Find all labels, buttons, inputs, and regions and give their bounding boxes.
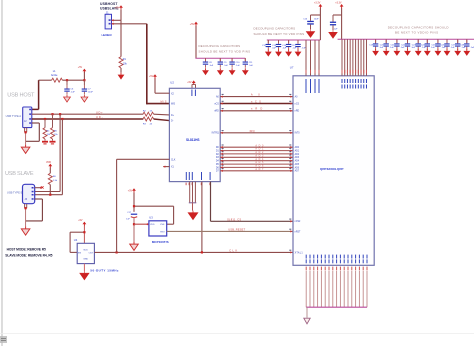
- power +5V (U2): [187, 80, 195, 85]
- sheet border bottom: [0, 333, 474, 335]
- wire J1 pin1 to R1: [120, 20, 122, 56]
- power +5V (decoupling A): [190, 22, 198, 27]
- ground (C22): [404, 49, 411, 56]
- node D+ tie: [59, 113, 61, 115]
- wire U3 RST output: [167, 230, 293, 232]
- note decoupling (U2): [199, 44, 251, 54]
- svg-text:OUT: OUT: [89, 252, 94, 254]
- inductor L1 ferrite: [51, 70, 62, 82]
- wire VBUS to J2 pin1: [32, 108, 39, 110]
- svg-text:.1uF: .1uF: [441, 47, 446, 49]
- svg-text:SHOULD BE NEXT TO VDD PINS: SHOULD BE NEXT TO VDD PINS: [199, 50, 251, 54]
- svg-text:QFP32/8XLQFP: QFP32/8XLQFP: [320, 167, 344, 171]
- U2 pin numbers right: [222, 94, 224, 169]
- IC U3 MCP100 body: [149, 221, 167, 236]
- wire data bus AD1: [220, 149, 293, 151]
- ground (C28): [463, 49, 470, 56]
- wire decoupling rail B: [267, 39, 321, 41]
- IC U2 SL811HS body: [169, 88, 220, 181]
- svg-text:INT0: INT0: [295, 133, 301, 135]
- note USBHOST/USBSLAVE: [100, 2, 119, 10]
- wire VDD to R6: [49, 168, 51, 173]
- resistor R1: [119, 57, 127, 68]
- svg-text:AD7: AD7: [295, 170, 300, 173]
- svg-text:+5V: +5V: [149, 75, 154, 78]
- ground (C14): [285, 50, 292, 57]
- capacitor C19: [369, 39, 384, 49]
- svg-text:U4: U4: [74, 238, 78, 242]
- connector J2 USB TYPE A: [23, 107, 32, 128]
- svg-text:.1uF: .1uF: [379, 47, 384, 49]
- wire host-slave tie 2: [35, 119, 63, 195]
- U2 right pin names: [212, 96, 220, 173]
- svg-text:10uF: 10uF: [88, 92, 94, 94]
- ground (C27): [454, 49, 461, 56]
- capacitor C7: [82, 80, 94, 95]
- svg-text:RST: RST: [160, 231, 165, 233]
- note decoupling (U7 core): [254, 27, 305, 37]
- wire U3 VDD pin: [134, 223, 149, 225]
- node J3 gnd junction: [25, 207, 27, 209]
- capacitor C26: [441, 39, 456, 49]
- resistor R6 1.5k: [48, 173, 58, 184]
- wire C17 to gnd: [133, 218, 135, 242]
- ground bar (R4): [42, 141, 48, 145]
- svg-text:nCS: nCS: [295, 103, 300, 105]
- U7 VDDIO pin names rotated: [342, 79, 367, 89]
- svg-text:MCP100T/S: MCP100T/S: [152, 240, 169, 244]
- capacitor C11: [243, 58, 254, 68]
- svg-text:CLK: CLK: [229, 249, 237, 253]
- svg-text:USB_RESET: USB_RESET: [228, 227, 245, 231]
- U7 pin numbers left: [289, 94, 291, 251]
- oscillator U4 body: [77, 243, 94, 263]
- svg-text:nCS: nCS: [214, 104, 219, 106]
- wire J1 pin2: [112, 23, 147, 25]
- wire mode net to U2: [147, 103, 170, 105]
- svg-text:.1uF: .1uF: [292, 48, 297, 50]
- ground (C19): [372, 49, 379, 56]
- wire clock branch to U2: [117, 159, 170, 252]
- ground (C13): [275, 50, 282, 57]
- power +3.3V (VDDIO): [335, 2, 343, 9]
- svg-text:USB TYPE A: USB TYPE A: [6, 114, 22, 118]
- wire +3.3V down to rail C: [341, 8, 343, 39]
- ground (C15): [295, 50, 302, 57]
- svg-text:USB HOST: USB HOST: [7, 93, 35, 99]
- svg-text:D-: D-: [171, 121, 174, 123]
- svg-text:+5V: +5V: [78, 219, 83, 222]
- svg-text:DECOUPLING CAPACITORS: DECOUPLING CAPACITORS: [199, 44, 241, 48]
- wire A0 net: [220, 95, 293, 97]
- svg-text:UD-: UD-: [96, 115, 103, 119]
- wire VDD core drops: [306, 40, 319, 76]
- svg-text:.1uF: .1uF: [461, 47, 466, 49]
- wire data bus AD0: [220, 146, 293, 148]
- node R6/D+ junction: [49, 194, 51, 196]
- wire branch to C16: [311, 14, 321, 16]
- capacitor C21: [391, 39, 406, 49]
- U2 GND pins to ground: [189, 182, 197, 211]
- svg-text:AD2: AD2: [295, 153, 300, 156]
- svg-text:.1uF: .1uF: [390, 47, 395, 49]
- capacitor C6: [64, 80, 75, 95]
- svg-text:.1uF: .1uF: [422, 47, 427, 49]
- wire data bus AD4: [220, 160, 293, 162]
- capacitor C25: [432, 39, 447, 49]
- capacitor C23: [412, 39, 427, 49]
- svg-text:SLAVE MODE: REMOVE R4, R5: SLAVE MODE: REMOVE R4, R5: [5, 254, 52, 258]
- svg-text:.1uF: .1uF: [224, 65, 229, 67]
- wire J1 pin1: [112, 19, 122, 21]
- power +5V (U3): [128, 188, 136, 193]
- svg-text:GND: GND: [83, 258, 88, 260]
- wire data bus AD3: [220, 156, 293, 158]
- svg-text:M/S: M/S: [171, 104, 176, 106]
- resistor R3: [143, 117, 154, 125]
- capacitor C24: [421, 39, 436, 49]
- wire data bus AD5: [220, 163, 293, 165]
- wire R3 to U2: [154, 119, 170, 121]
- U7 VDDIO pin numbers: [342, 70, 367, 74]
- svg-text:UD+: UD+: [96, 110, 103, 114]
- svg-text:AD5: AD5: [295, 163, 300, 166]
- capacitor C20: [380, 39, 395, 49]
- wire data bus AD2: [220, 153, 293, 155]
- connector J3 USB TYPE B: [23, 184, 35, 203]
- wire R2 to U2: [154, 113, 170, 116]
- node R5 tap: [51, 113, 53, 115]
- svg-text:INTRQ: INTRQ: [212, 133, 219, 135]
- wire host-slave tie 1: [35, 114, 60, 191]
- ground (C24): [424, 49, 431, 56]
- svg-text:VDD: VDD: [150, 224, 155, 226]
- node U4 enable junction: [83, 231, 85, 233]
- svg-text:+3.3V: +3.3V: [314, 2, 321, 5]
- svg-text:EN: EN: [78, 252, 81, 254]
- wire D- host: [32, 118, 144, 120]
- node clock/X2 junction: [201, 251, 203, 253]
- svg-text:BE NEXT TO VDDIO PINS: BE NEXT TO VDDIO PINS: [395, 31, 438, 35]
- U2 bottom pin numbers: [186, 183, 211, 186]
- wire U4 enable loop: [70, 232, 84, 252]
- ground (C10): [229, 68, 236, 75]
- svg-text:HEADER 2: HEADER 2: [102, 33, 113, 37]
- svg-text:VDD: VDD: [46, 161, 51, 164]
- resistor R2: [143, 111, 154, 117]
- wire U3 feedback top: [134, 206, 174, 225]
- ground (C8): [202, 68, 209, 75]
- node U3 vdd junction: [133, 205, 135, 207]
- svg-text:.1uF: .1uF: [470, 47, 474, 49]
- svg-text:.1uF: .1uF: [249, 65, 254, 67]
- capacitor C9: [218, 58, 229, 68]
- capacitor C15: [292, 40, 307, 50]
- ground bar (R5): [50, 141, 56, 145]
- svg-text:.1uF: .1uF: [236, 65, 241, 67]
- svg-text:AD3: AD3: [295, 156, 300, 159]
- svg-text:SL811_CS: SL811_CS: [227, 217, 241, 221]
- U7 GPIO pin numbers: [306, 267, 368, 271]
- svg-text:.1uF: .1uF: [282, 48, 287, 50]
- wire +3.3V down to rail B: [319, 8, 321, 40]
- wire D+ host: [32, 113, 144, 115]
- sheet corner title block mark: [0, 336, 7, 343]
- svg-text:SL811HS: SL811HS: [186, 138, 200, 142]
- svg-text:VSS: VSS: [160, 224, 165, 226]
- svg-text:AD1: AD1: [295, 150, 300, 153]
- svg-text:AD0: AD0: [295, 146, 300, 149]
- capacitor C16 10uF: [303, 15, 319, 29]
- wire decoupling rail A: [195, 57, 245, 59]
- wire +5V down (U3 supply): [133, 193, 135, 212]
- capacitor C28: [460, 39, 474, 49]
- resistor R4: [43, 119, 51, 141]
- off-page connector arrow: [304, 318, 310, 324]
- node R4 tap: [44, 118, 46, 120]
- svg-text:IRQ: IRQ: [250, 129, 255, 133]
- svg-text:.1uF: .1uF: [411, 47, 416, 49]
- power +5V (ferrite rail): [78, 66, 87, 73]
- svg-text:USB TYPE B: USB TYPE B: [7, 191, 23, 195]
- svg-text:.1uF: .1uF: [272, 48, 277, 50]
- ground (J3): [21, 226, 30, 235]
- svg-text:.1uF: .1uF: [400, 47, 405, 49]
- power +3.3V (core): [314, 2, 322, 9]
- capacitor C14: [282, 40, 297, 50]
- ground (C26): [444, 49, 451, 56]
- wire J3 pin1 VBUS stub: [35, 186, 44, 189]
- ground (C12): [265, 50, 272, 57]
- power +5V (J1): [115, 5, 123, 10]
- svg-text:SHOULD BE NEXT TO VDD PINS: SHOULD BE NEXT TO VDD PINS: [254, 32, 305, 36]
- ground (C20): [383, 49, 390, 56]
- ground (U2): [188, 211, 198, 220]
- capacitor C22: [401, 39, 416, 49]
- capacitor C17: [126, 212, 137, 221]
- node C7 junction: [83, 79, 85, 81]
- ground (C7): [81, 95, 88, 102]
- power +5V (U4): [78, 219, 86, 226]
- wire R6 to D+: [49, 185, 51, 195]
- U2 VDD pin names: [191, 90, 196, 97]
- svg-text:nRST: nRST: [295, 231, 301, 233]
- node D- tie: [61, 118, 63, 120]
- svg-text:ferrite: ferrite: [51, 74, 58, 77]
- capacitor C10: [229, 58, 240, 68]
- svg-text:nRD: nRD: [214, 111, 219, 113]
- wire branch to C18: [333, 14, 342, 16]
- wire VBUS vertical: [38, 80, 40, 109]
- svg-text:USB SLAVE: USB SLAVE: [5, 171, 34, 177]
- U3 pin names: [150, 224, 165, 233]
- wire data bus AD7: [220, 170, 293, 172]
- wire INTRQ net: [220, 132, 293, 134]
- wire J3 shell to ground: [25, 204, 27, 226]
- wire VBUS rail left: [39, 79, 52, 81]
- power VDD (pullup): [46, 161, 52, 168]
- svg-text:M/S: M/S: [161, 100, 167, 104]
- svg-text:10uF: 10uF: [314, 19, 319, 21]
- U7 VDD pin numbers: [306, 70, 320, 74]
- ground (C9): [217, 68, 224, 75]
- wire +5V to rail A: [195, 26, 197, 58]
- svg-text:+5V: +5V: [187, 81, 192, 84]
- wire decoupling rail C: [338, 38, 474, 40]
- U7 left pin names: [295, 96, 304, 255]
- svg-text:+3.3V: +3.3V: [335, 2, 342, 5]
- svg-text:VDD: VDD: [83, 249, 88, 251]
- wire rail right of L1: [62, 79, 84, 81]
- ground (J2): [21, 145, 30, 154]
- svg-text:+5V: +5V: [78, 66, 83, 69]
- U7 VDD pin names rotated: [306, 79, 320, 93]
- svg-text:AD6: AD6: [295, 166, 300, 169]
- svg-text:DECOUPLING CAPACITORS SHOULD: DECOUPLING CAPACITORS SHOULD: [388, 25, 449, 29]
- resistor R5: [51, 114, 59, 140]
- wire +5V down: [83, 72, 85, 80]
- wire J3 pin4 gnd: [26, 199, 43, 221]
- wire R1 to ground: [120, 68, 122, 73]
- wire +5V to U2 X2 pin: [155, 78, 169, 93]
- node C6 junction: [66, 79, 68, 81]
- wire U4 gnd stub: [83, 264, 85, 272]
- svg-text:U7: U7: [290, 66, 294, 70]
- svg-text:U3: U3: [149, 216, 153, 220]
- wire mode net vertical: [146, 24, 148, 105]
- ground (C25): [435, 49, 442, 56]
- svg-text:U2: U2: [170, 81, 174, 85]
- ground (C6): [64, 95, 71, 102]
- svg-text:AD7: AD7: [255, 168, 264, 171]
- svg-text:.1uF: .1uF: [70, 92, 75, 94]
- wire GPIO bottom rail: [306, 306, 367, 308]
- U2 bottom pin names rotated: [186, 172, 211, 180]
- svg-text:.1uF: .1uF: [431, 47, 436, 49]
- node U3 vdd pin junction: [133, 223, 135, 225]
- wire J2 pin4 gnd: [26, 123, 40, 141]
- capacitor C27: [451, 39, 466, 49]
- power +5V (X2 pullup): [149, 74, 157, 79]
- IC U7 LQFP body: [293, 76, 374, 265]
- U7 GPIO pin names rotated: [306, 255, 368, 264]
- wire +5V to U4: [83, 226, 85, 244]
- wire GPIO bus drops: [306, 271, 367, 307]
- node J2 gnd junction: [25, 131, 27, 133]
- wire +5V to J1 pin1: [120, 10, 122, 21]
- note decoupling (VDDIO): [388, 25, 449, 34]
- svg-text:DECOUPLING CAPACITORS: DECOUPLING CAPACITORS: [254, 27, 296, 31]
- wire nRD net: [220, 110, 293, 112]
- wire rail to off-page arrow: [306, 307, 308, 318]
- wire data bus AD6: [220, 166, 293, 168]
- ground (C23): [415, 49, 422, 56]
- ground (R1): [118, 73, 125, 80]
- note HOST/SLAVE mode: [5, 248, 52, 258]
- svg-text:nRD: nRD: [295, 111, 300, 113]
- svg-text:+5V: +5V: [190, 23, 195, 26]
- svg-text:nCS2: nCS2: [295, 221, 301, 223]
- svg-text:.1uF: .1uF: [209, 65, 214, 67]
- capacitor C18 1uF: [330, 15, 338, 31]
- svg-text:XTAL1: XTAL1: [295, 251, 304, 254]
- wire U2 VDD stubs: [192, 84, 196, 88]
- wire U2 X2 bottom to clock net: [201, 182, 203, 253]
- svg-text:HOST MODE: REMOVE R5: HOST MODE: REMOVE R5: [7, 248, 46, 252]
- svg-text:.1uF: .1uF: [450, 47, 455, 49]
- wire U2 X1 stub: [163, 165, 169, 167]
- wire nCS net: [220, 102, 293, 104]
- connector J1: [105, 14, 111, 29]
- U2 left pin names: [171, 94, 176, 169]
- ground (C11): [242, 68, 249, 75]
- capacitor C8: [203, 58, 214, 68]
- svg-text:CLK: CLK: [171, 159, 176, 161]
- svg-text:J1: J1: [106, 10, 109, 14]
- wire U2 nCS bottom: [211, 182, 293, 223]
- capacitor C13: [272, 40, 287, 50]
- ground (U3/C17): [130, 242, 139, 251]
- node clock/X1 junction: [116, 251, 118, 253]
- wire J2 shell to ground: [25, 128, 27, 145]
- ground (C16): [306, 29, 315, 37]
- sheet border left: [1, 0, 3, 346]
- ground (C21): [394, 49, 401, 56]
- ground (U4): [80, 271, 89, 279]
- svg-text:+5V: +5V: [128, 189, 133, 192]
- svg-text:+5V: +5V: [115, 5, 120, 9]
- svg-text:AD4: AD4: [295, 160, 300, 163]
- ground (C18): [329, 30, 338, 38]
- capacitor C12: [262, 40, 277, 50]
- wire clock net: [94, 251, 293, 253]
- svg-text:50-DUTY 15MHz: 50-DUTY 15MHz: [90, 269, 119, 273]
- wire VDDIO drops: [342, 39, 366, 76]
